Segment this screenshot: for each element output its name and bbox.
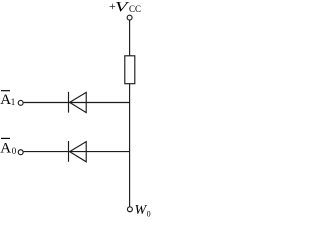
svg-text:0: 0 — [147, 210, 151, 219]
svg-text:W: W — [135, 203, 148, 218]
svg-text:A: A — [0, 140, 11, 156]
svg-text:CC: CC — [129, 4, 141, 14]
svg-text:0: 0 — [12, 146, 17, 156]
svg-text:A: A — [0, 92, 11, 108]
svg-text:1: 1 — [11, 97, 16, 107]
svg-text:V: V — [115, 0, 130, 16]
